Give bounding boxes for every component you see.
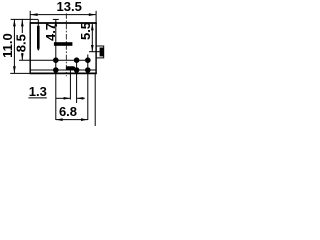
dim line 13.5 [30, 14, 96, 16]
arrow 11.0 up [13, 20, 16, 27]
extension tick left [29, 11, 31, 23]
arrow 13.5 right [89, 13, 96, 16]
dim label 5.5 (rotated) [78, 22, 93, 40]
hole col3 extension [87, 55, 89, 121]
svg-text:6.8: 6.8 [59, 104, 77, 119]
svg-text:5.5: 5.5 [78, 22, 93, 40]
dim label 8.5 (rotated) [14, 34, 29, 52]
dim line 6.8 [56, 119, 88, 121]
hole circles row2 [53, 67, 59, 73]
hole row 1 line [19, 59, 90, 61]
arrow 6.8 right [81, 118, 88, 121]
4.7 anchor stub [53, 18, 59, 20]
dim label 6.8 [59, 104, 77, 119]
dim line 4.7 / hole col 1 extension [55, 19, 57, 120]
package bottom edge [30, 72, 97, 74]
dim line 1.3 right arm [77, 97, 85, 99]
tab outline [96, 46, 104, 58]
slot at row2 [66, 66, 75, 70]
svg-text:13.5: 13.5 [57, 0, 82, 14]
svg-text:8.5: 8.5 [14, 34, 29, 52]
vertical centerline (dash-dot) [65, 13, 67, 76]
package left edge [29, 23, 31, 73]
pin lead (thin) [37, 19, 39, 27]
dim label 1.3 [29, 84, 47, 99]
dim line 11.0 [13, 19, 15, 73]
hole row 2 line [30, 69, 96, 71]
hole circles row1 [53, 57, 59, 63]
dim line 8.5 (broken by text) [21, 19, 23, 33]
arrow 8.5 up [21, 20, 24, 27]
bottom edge extension (thin, left) [10, 72, 30, 74]
pin tip [37, 49, 40, 51]
dim line 5.5 [91, 23, 93, 51]
hole col2 extension [76, 60, 78, 103]
dim label 11.0 (rotated) [0, 33, 15, 58]
arrow 4.7 up [54, 20, 57, 27]
arrow 5.5 up [91, 23, 94, 30]
slot bar [54, 42, 73, 46]
arrow 13.5 left [30, 13, 37, 16]
arrow 5.5 down [91, 45, 94, 51]
arrow 1.3 left-pointing [77, 97, 84, 100]
arrow 1.3 right-pointing [64, 97, 71, 100]
extension tick right [95, 11, 97, 23]
pin-top anchor line (thin, left) [11, 18, 38, 20]
arrow 6.8 left [56, 118, 63, 121]
arrow 8.5 down [21, 53, 24, 60]
tab black fill [100, 48, 104, 57]
dim label 4.7 (rotated) [43, 23, 58, 41]
package right edge [95, 23, 97, 73]
dim label 13.5 [57, 0, 82, 14]
5.5 anchor line (tab centerline) [89, 51, 101, 53]
package top edge [30, 22, 97, 24]
slot extension [69, 68, 71, 100]
pin bar [37, 26, 40, 49]
right edge extension [94, 73, 96, 126]
svg-text:1.3: 1.3 [29, 84, 47, 99]
arrow 11.0 down [13, 66, 16, 73]
dim line 1.3 left arm [28, 97, 46, 99]
